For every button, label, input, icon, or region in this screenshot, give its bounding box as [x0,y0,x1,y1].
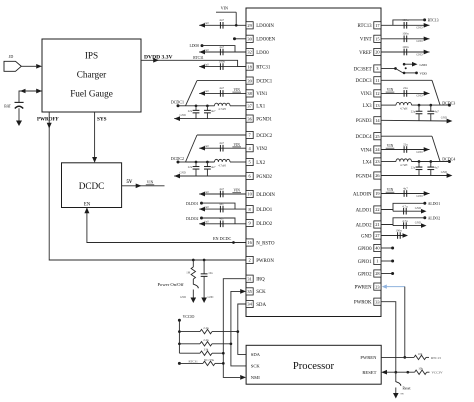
wire DVDD 3.3V [141,60,246,66]
svg-text:LX4: LX4 [363,160,373,165]
svg-text:EN DCDC: EN DCDC [213,236,231,241]
IC U1 pin 26 PGND4 [356,172,381,179]
IC U1 pin 20 VREF [359,48,381,55]
junction RESET a [394,371,397,374]
svg-text:VDD: VDD [420,72,428,76]
svg-text:10k: 10k [418,352,423,356]
svg-text:PGND4: PGND4 [356,174,372,179]
wire RESET row [386,371,415,373]
svg-text:1u0: 1u0 [204,89,209,93]
junction LX3 cap b [429,104,432,107]
wire PGND2 row [174,175,246,177]
svg-text:4u7: 4u7 [403,186,408,190]
svg-text:GND: GND [416,52,422,56]
wire J1 to IPS [21,65,36,67]
svg-text:VIN: VIN [387,88,394,92]
svg-text:GND: GND [180,171,186,175]
IC U1 pin 2 PWRON [246,256,274,263]
capacitor C17 22u DCDC3 [411,105,423,121]
svg-text:4u7: 4u7 [211,109,216,113]
IC U1 pin 31 IRQ [246,275,265,282]
IC U1 pin 1 GPIO1 [358,257,381,264]
wire DLDO2 branch [202,218,236,224]
capacitor C24 4u7 on ALDO1 [393,205,427,215]
svg-text:33k: 33k [204,348,209,352]
svg-text:DCDC: DCDC [79,181,105,191]
svg-text:4.7uH: 4.7uH [400,163,408,167]
svg-text:12: 12 [375,91,379,96]
svg-text:4u7: 4u7 [219,141,224,145]
arrow into IPS VIN [36,64,42,69]
arrow SYS into DCDC [92,157,97,163]
resistor R3 2.2k [200,338,212,346]
capacitor C19 22u on VIN3 [381,86,430,98]
wire PWROFF to PWRON pin 2 [49,112,246,260]
capacitor C20 22u DCDC4 [411,162,423,176]
svg-text:2.2k: 2.2k [203,338,209,342]
capacitor C4 22u DCDC1 [188,106,200,119]
svg-text:PGND1: PGND1 [256,117,272,122]
jumper VDD contact [403,72,428,76]
capacitor C21 4u7 DCDC4 [427,162,439,176]
svg-text:ALDOIN: ALDOIN [353,192,372,197]
wire DCDC2 output node [178,161,186,163]
wire DCDC3 feedback [381,79,432,81]
svg-text:RESET: RESET [362,370,376,375]
switch SW2 reset [396,382,411,396]
wire cap to ground [203,276,205,297]
capacitor C7 22u DCDC2 [188,162,200,176]
svg-text:DCDC4: DCDC4 [356,135,373,140]
battery BT1 [4,102,23,108]
junction RESET b [406,371,409,374]
svg-text:LDO0EN: LDO0EN [256,38,275,43]
wire ALDO2 branch [381,218,425,225]
IC U1 PMIC body [246,8,381,317]
svg-text:DCDC1: DCDC1 [171,100,184,105]
svg-text:DCDC3: DCDC3 [356,79,373,84]
inductor L3 4.7uH [396,102,412,110]
junction DC3SET [394,67,397,70]
arrow PWROFF down [47,123,52,129]
arrow into NMI [240,375,246,380]
svg-text:4.7u: 4.7u [402,205,408,209]
svg-text:VIN: VIN [147,181,154,185]
svg-text:Charger: Charger [77,70,106,80]
svg-text:PWROFF: PWROFF [37,117,59,122]
junction PWREN [403,356,406,359]
ground cap branch [201,298,207,304]
arrow EN into DCDC [84,208,89,214]
wire VIN rail to LDO0IN [235,12,237,25]
wire battery to ground [18,108,20,121]
svg-text:BAT: BAT [4,104,12,108]
svg-text:RTC13: RTC13 [428,19,439,23]
svg-text:PGND3: PGND3 [356,119,372,124]
svg-text:10k: 10k [418,367,423,371]
wire resistor to switch [192,279,194,285]
svg-text:DCDC1: DCDC1 [256,79,273,84]
svg-text:JD: JD [9,54,14,59]
wire cap branch [203,260,205,274]
junction PWRON b [203,259,206,262]
svg-text:GND: GND [416,39,422,43]
wire PWREN blue [386,286,405,288]
svg-text:Fuel Gauge: Fuel Gauge [70,89,113,99]
IC U1 pin 11 DCDC3 [356,77,381,84]
junction row1 [178,330,181,333]
wire battery to IPS [19,91,42,102]
IC U1 pin 18 RTC31 [246,63,271,70]
junction LX2 cap b [206,161,209,164]
svg-text:DLDO2: DLDO2 [186,217,199,221]
svg-text:PWREN: PWREN [354,285,372,290]
svg-text:32: 32 [247,50,251,55]
svg-text:22u: 22u [188,165,193,169]
IC U1 pin 40 GPIO0 [358,244,381,251]
wire PGND4 row [381,175,449,177]
svg-text:GND: GND [208,296,214,299]
svg-text:SDA: SDA [251,352,261,357]
wire ALDO1 cap row [392,210,394,212]
IC U1 pin 7 DCDC2 [246,131,273,138]
svg-text:LX1: LX1 [256,105,266,110]
wire DCDC4 diagonal [432,136,440,161]
wire PWREN vertical [404,287,406,358]
net label RTC13 [423,18,426,21]
wire SCK net [231,291,246,366]
svg-text:EN: EN [84,203,91,208]
svg-text:DLDO1: DLDO1 [256,208,273,213]
inductor L4 4.7uH [396,159,412,167]
svg-text:4u7: 4u7 [434,166,439,170]
svg-text:22u: 22u [403,86,408,90]
IC U1 pin 23 LX4 [363,158,381,165]
IC U1 pin 37 LX1 [246,102,266,109]
capacitor C2 4u7 on LDO0 [199,45,246,56]
svg-text:1u0: 1u0 [204,190,209,194]
junction SCK row2 [230,342,233,345]
IC U1 pin 6 PGND2 [246,172,273,179]
Processor block U4 [246,345,381,384]
IC U1 pin 14 PGND3 [356,117,381,124]
svg-text:SDA: SDA [256,303,266,308]
arrow at battery corner [20,89,26,94]
svg-text:4u7: 4u7 [219,18,224,22]
wire row3 [179,352,200,354]
wire GPIO2 stub [381,273,393,275]
resistor R5 NC/33k [203,358,215,366]
capacitor C11 4u7 on DLDO1 [199,202,246,213]
svg-text:RTC31: RTC31 [189,359,199,363]
svg-text:VIN: VIN [387,188,394,192]
svg-text:NC/33k: NC/33k [204,358,215,362]
svg-text:VIN: VIN [234,189,241,193]
svg-text:SCK: SCK [256,290,266,295]
svg-text:DLDOIN: DLDOIN [256,193,275,198]
IC U1 pin 36 PGND1 [246,115,273,122]
svg-text:4u7: 4u7 [219,202,224,206]
wire LX4 row [381,161,396,163]
ground PGND1 arrow [174,116,180,121]
capacitor C10 4u7 on DLDOIN [199,187,246,198]
svg-text:VINT: VINT [360,38,372,43]
wire DCDC 5V out [122,185,165,187]
IC U1 pin 5 LX2 [246,158,266,165]
svg-text:4.7uH: 4.7uH [218,163,226,167]
svg-text:VCC3V: VCC3V [432,371,444,375]
arrow into SCK pin35 [240,289,246,294]
svg-text:21: 21 [375,222,379,227]
IC U1 pin 21 ALDO2 [356,221,381,228]
wire PGND3 row [381,119,449,122]
inductor L1 4.7uH [215,103,231,111]
svg-text:5V: 5V [127,180,133,185]
wire LDO0EN stub [235,38,247,40]
svg-text:DLDO2: DLDO2 [256,222,273,227]
svg-text:ALDO1: ALDO1 [428,202,441,206]
wire ALDO1 branch [381,203,425,209]
IC U1 pin 28 GPIO2 [358,270,381,277]
svg-text:PWREN: PWREN [360,355,377,360]
IC U1 pin 4 VIN2 [246,145,268,152]
svg-text:11: 11 [375,78,379,83]
DCDC converter block U3 [62,163,122,208]
IC U1 pin 24 VIN4 [360,146,381,153]
svg-text:VIN: VIN [234,88,241,92]
jumper GND contact [403,62,428,67]
svg-text:DCDC2: DCDC2 [171,156,184,161]
svg-text:100n: 100n [402,45,409,49]
capacitor C9 4u7 on VIN2 [199,141,246,152]
junction LX1 cap a [195,104,198,107]
svg-text:4u7: 4u7 [219,217,224,221]
IC U1 pin 27 GND [361,232,381,239]
svg-text:22: 22 [375,207,379,212]
svg-text:Processor: Processor [293,361,335,372]
junction LX2 cap a [195,161,198,164]
svg-text:VCCIO: VCCIO [183,315,195,319]
svg-text:PGND2: PGND2 [256,175,272,180]
junction IRQ row4 [222,362,225,365]
svg-text:IRQ: IRQ [256,278,265,283]
svg-text:1u0: 1u0 [204,220,209,224]
capacitor C22 22u on VIN4 [381,142,430,154]
wire DCDC2 diagonal [186,135,198,162]
svg-text:1u0: 1u0 [204,21,209,25]
IC U1 pin 22 ALDO1 [356,206,381,213]
jumper pivot dot [405,67,407,69]
IC U1 pin 23 PWREN [354,283,381,290]
junction row2 [178,342,181,345]
svg-text:VIN2: VIN2 [256,147,268,152]
capacitor C16 100n on VREF [381,45,430,57]
svg-text:GPIO1: GPIO1 [358,260,372,265]
svg-text:VIN4: VIN4 [360,148,372,153]
svg-text:100n: 100n [402,18,409,22]
resistor R2 2.2k [200,326,212,334]
IC U1 pin 39 DCDC1 [246,77,273,84]
wire row4 [179,362,203,364]
svg-text:SYS: SYS [97,116,107,122]
wire ALDO2 cap row [392,225,394,226]
svg-text:VIN3: VIN3 [360,92,372,97]
wire row1 [179,331,200,333]
IC U1 pin 12 VIN3 [360,90,381,97]
svg-text:SCK: SCK [251,364,261,369]
svg-text:4.7uH: 4.7uH [400,107,408,111]
junction IRQ row3 [222,352,225,355]
svg-text:VIN: VIN [221,6,228,11]
capacitor C18 4u7 DCDC3 [427,105,439,121]
capacitor C13 100n [201,271,213,276]
ground reset button [393,393,399,399]
svg-text:1u0: 1u0 [204,62,209,66]
svg-text:GND: GND [420,63,428,67]
svg-text:LDO0: LDO0 [256,51,269,56]
junction LX3 cap a [418,104,421,107]
svg-text:22u: 22u [403,142,408,146]
arrow into RESET [381,370,387,375]
wire button branch [192,260,194,267]
svg-text:1M: 1M [186,271,190,275]
svg-text:VIN1: VIN1 [256,92,268,97]
wire GPIO0 stub [381,247,393,249]
svg-text:DVDD 3.3V: DVDD 3.3V [144,55,173,61]
svg-text:GND: GND [416,26,422,30]
svg-text:GND: GND [415,220,421,224]
net label ALDO2 [423,216,426,219]
svg-text:GPIO0: GPIO0 [358,247,372,252]
svg-text:Power On/Off: Power On/Off [158,282,185,287]
wire DCDC4 feedback [381,135,432,137]
IC U1 pin 38 VIN1 [246,90,268,97]
node LDO0EN end [233,37,236,40]
wire DCDC3 diagonal [432,80,440,105]
svg-text:LX2: LX2 [256,161,266,166]
resistor R1 [186,267,195,279]
svg-text:10n: 10n [208,271,213,275]
arrow DVDD right [153,58,159,63]
svg-text:GND: GND [416,150,422,154]
svg-text:PWRON: PWRON [256,259,274,264]
resistor R4 33k [200,348,212,356]
svg-text:GND: GND [180,296,186,299]
capacitor C5 4u7 DCDC1 [204,106,216,119]
capacitor C6 4u7 on VIN1 [199,86,246,97]
ground button [191,298,197,304]
IC U1 pin 17 RTC13 [357,22,381,29]
svg-text:31: 31 [247,276,251,281]
svg-text:100n: 100n [395,229,402,233]
svg-text:VIN: VIN [387,144,394,148]
IC U1 pin 3 DC3SET [354,65,381,72]
svg-text:RTC31: RTC31 [256,65,271,70]
IC U1 pin 25 DCDC4 [356,133,381,140]
wire IRQ to NMI [223,279,246,378]
wire GPIO1 stub [381,260,393,262]
connector J1 [4,54,21,72]
svg-text:1: 1 [376,259,378,264]
ground battery [16,121,22,127]
IC U1 pin 15 VINT [360,35,381,42]
svg-text:1u0: 1u0 [204,48,209,52]
capacitor C12 4u7 on DLDO2 [199,217,246,228]
capacitor C15 100n on VINT [381,32,430,44]
wire DC3SET [381,68,396,70]
svg-text:22u: 22u [188,109,193,113]
IC U1 pin 9 DLDO2 [246,219,273,226]
capacitor C1 4u7 on LDO0IN [199,18,246,29]
svg-text:RTC13: RTC13 [431,356,441,360]
capacitor C26 100n on GND pin [381,229,408,239]
ground PGND2 arrow [174,174,180,179]
capacitor C14 100n on RTC13 [381,18,430,30]
wire RTC13 branch [393,20,425,25]
svg-text:100n: 100n [219,59,226,63]
svg-text:VREF: VREF [359,51,372,56]
svg-text:RTC31: RTC31 [193,56,204,60]
svg-text:22u: 22u [411,166,416,170]
svg-text:DC3SET: DC3SET [354,67,372,72]
IC U1 pin 13 LX3 [363,102,381,109]
IC U1 pin 33 PWROK [354,298,381,305]
wire DCDC1 output node [178,105,186,107]
resistor R6 10k [414,352,426,360]
wire LX2 row [186,161,215,163]
svg-text:4u7: 4u7 [211,165,216,169]
capacitor C8 4u7 DCDC2 [204,162,216,176]
svg-text:ALDO1: ALDO1 [356,208,373,213]
svg-text:4u7: 4u7 [219,86,224,90]
svg-text:DCDC2: DCDC2 [256,134,273,139]
resistor R7 10k [415,367,427,375]
svg-text:22u: 22u [411,110,416,114]
wire DCDC1 diagonal [186,81,198,106]
svg-text:PWROK: PWROK [354,301,372,306]
IPS charger fuel-gauge block U2 [42,39,141,112]
wire PWREN row [381,356,414,358]
wire SYS to DCDC [94,112,96,158]
IC U1 pin 29 LDO0IN [246,22,274,29]
IC U1 pin 10 DLDOIN [246,190,275,197]
svg-text:GND: GND [441,170,447,174]
svg-text:LDO0: LDO0 [190,44,200,48]
svg-text:1u0: 1u0 [204,144,209,148]
wire LDO0 branch [202,46,235,52]
wire LX1 row [186,105,215,107]
capacitor C23 4u7 on ALDOIN [381,186,430,198]
wire SDA net [238,304,246,354]
svg-text:DLDO1: DLDO1 [186,202,199,206]
capacitor C25 4u7 on ALDO2 [393,219,427,229]
junction SDA row1 [236,330,239,333]
svg-text:GND: GND [416,194,422,198]
net label ALDO1 [423,202,426,205]
svg-text:4u7: 4u7 [219,187,224,191]
wire DCDC2 feedback [197,134,246,136]
inductor L2 4.7uH [215,159,231,167]
arrow into IPS BAT [36,89,42,94]
svg-text:100n: 100n [402,32,409,36]
svg-text:2.2k: 2.2k [203,326,209,330]
IC U1 pin 32 LDO0 [246,48,269,55]
ground PGND3 arrow [447,119,453,124]
svg-text:GND: GND [361,234,372,239]
wire row2 [179,343,200,345]
svg-text:1u0: 1u0 [204,205,209,209]
svg-text:RTC13: RTC13 [357,24,372,29]
